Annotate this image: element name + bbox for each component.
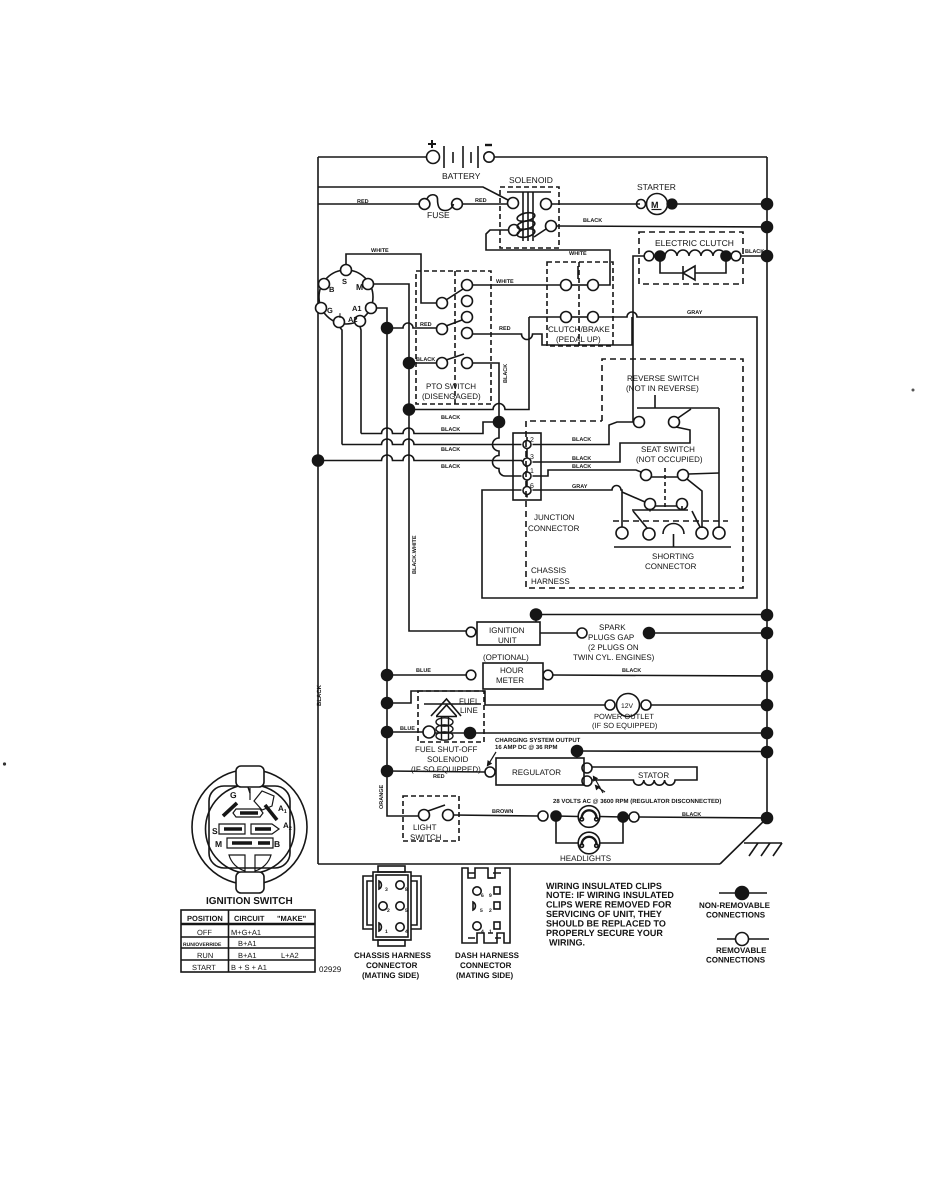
svg-text:ORANGE: ORANGE: [379, 785, 385, 809]
scan speck left: [3, 762, 6, 765]
svg-text:CIRCUIT: CIRCUIT: [234, 914, 265, 923]
node spark right frame: [762, 628, 773, 639]
fuse right terminal: [452, 199, 463, 210]
clutch/brake terminal T1: [561, 280, 572, 291]
svg-text:6: 6: [530, 483, 534, 490]
wire fuel solenoid out: [435, 732, 470, 734]
node M black junction: [404, 358, 415, 369]
PTO terminal L2: [437, 324, 448, 335]
svg-text:OFF: OFF: [197, 928, 212, 937]
reverse switch arm: [678, 409, 691, 418]
svg-text:PROPERLY SECURE YOUR: PROPERLY SECURE YOUR: [546, 928, 663, 938]
svg-text:CHARGING SYSTEM OUTPUT: CHARGING SYSTEM OUTPUT: [495, 737, 581, 744]
svg-text:CONNECTOR: CONNECTOR: [460, 961, 512, 970]
clutch/brake terminal T2: [588, 280, 599, 291]
wire frame to fuse (RED): [318, 203, 420, 205]
pin A2: [355, 316, 366, 327]
PTO switch dashed box: [416, 271, 491, 404]
IGNSWITCH-GROUP: [192, 766, 307, 907]
svg-text:IGNITION SWITCH: IGNITION SWITCH: [206, 896, 293, 907]
fuse element: [427, 195, 454, 211]
pin stems: [526, 437, 528, 498]
svg-text:SOLENOID: SOLENOID: [427, 755, 469, 764]
wire headlight 2 parallel left: [556, 816, 578, 843]
PTO switch arm mid: [446, 320, 462, 326]
svg-text:5: 5: [480, 908, 483, 914]
seat dashed divider: [664, 468, 666, 510]
svg-text:M: M: [651, 200, 659, 210]
ignition switch top tab: [236, 766, 264, 787]
reverse switch bar: [637, 407, 719, 409]
battery plus sign: [428, 140, 436, 148]
svg-text:BLACK: BLACK: [572, 456, 591, 462]
ignition switch bottom tab: [236, 872, 264, 893]
svg-text:CLIPS WERE REMOVED FOR: CLIPS WERE REMOVED FOR: [546, 900, 672, 910]
table column divider: [228, 910, 230, 972]
scan speck right: [912, 389, 915, 392]
node right frame clutch: [762, 251, 773, 262]
clutch/brake terminal B1: [561, 312, 572, 323]
node W1 junction: [404, 404, 415, 415]
node regulator red junction: [382, 766, 393, 777]
seat lower bridge: [656, 505, 677, 507]
clutch coil: [665, 250, 725, 256]
fuse left terminal: [419, 199, 430, 210]
node clutch left: [655, 251, 665, 261]
wire I down: [340, 328, 342, 445]
pin 6: [523, 487, 531, 495]
node PTO black junction: [494, 417, 505, 428]
PTO terminal R3: [462, 312, 473, 323]
wire reverse bar down to shorting: [718, 408, 720, 528]
dash pin O6: [473, 887, 481, 895]
svg-text:16 AMP DC @ 36 RPM: 16 AMP DC @ 36 RPM: [495, 744, 558, 751]
wire pin2 to reverse left: [533, 422, 634, 445]
ground bus wire: [536, 614, 767, 616]
node headlights right frame: [762, 813, 773, 824]
bus stub to ignition unit: [535, 615, 537, 623]
svg-text:4: 4: [405, 929, 408, 935]
wire headlight 2 parallel right: [600, 817, 623, 843]
node regulator right frame: [762, 747, 773, 758]
SHORTING-GROUP: [613, 511, 731, 571]
wire headlight1 to right node: [600, 816, 624, 819]
regulator box: [496, 758, 584, 785]
svg-text:NOTE: IF WIRING INSULATED: NOTE: IF WIRING INSULATED: [546, 890, 674, 900]
solenoid dashed box: [500, 187, 559, 248]
svg-text:S: S: [212, 826, 218, 836]
svg-text:A1: A1: [278, 804, 287, 815]
svg-text:SOLENOID: SOLENOID: [509, 175, 553, 185]
svg-text:12V: 12V: [621, 703, 634, 710]
wire red to regulator: [387, 771, 485, 772]
svg-text:M+G+A1: M+G+A1: [231, 928, 261, 937]
stator loop: [592, 767, 697, 785]
regulator right terminal lower: [582, 776, 592, 786]
REVERSE-GROUP: [533, 374, 720, 462]
node headlight left: [551, 811, 561, 821]
wire A2 down: [360, 327, 361, 434]
PTO terminal L1: [437, 298, 448, 309]
pin M: [363, 279, 374, 290]
node starter to frame: [667, 199, 677, 209]
keyswitch I tick: [248, 787, 250, 793]
svg-text:BLACK: BLACK: [503, 364, 509, 383]
node fuel out junction: [465, 728, 476, 739]
node charging right frame: [762, 728, 773, 739]
wire bottom frame: [318, 863, 720, 865]
wire hour meter to right frame (BLACK): [553, 675, 767, 676]
charging arrow: [488, 752, 497, 766]
svg-text:LINE: LINE: [460, 706, 478, 715]
dash harness connector outline: [462, 868, 510, 943]
svg-text:2: 2: [387, 908, 390, 914]
wire clutch to right frame (BLACK): [741, 255, 767, 257]
clutch/brake dashed divider: [578, 262, 580, 346]
svg-text:POWER OUTLET: POWER OUTLET: [594, 712, 654, 721]
svg-text:REMOVABLE: REMOVABLE: [716, 946, 767, 955]
battery plates: [443, 146, 445, 168]
IGNCONN-GROUP: [316, 248, 467, 771]
svg-text:(2 PLUGS ON: (2 PLUGS ON: [588, 643, 639, 652]
wire M down (BLACK.WHITE main): [374, 284, 467, 631]
pin G: [316, 303, 327, 314]
node bus right frame: [762, 610, 773, 621]
svg-text:3: 3: [385, 887, 388, 893]
dash connector top notch detail: [468, 873, 501, 878]
wire gray out with hop: [482, 312, 757, 598]
svg-text:TWIN CYL. ENGINES): TWIN CYL. ENGINES): [573, 653, 655, 662]
svg-text:02929: 02929: [319, 965, 342, 974]
STARTER-GROUP: [637, 182, 773, 233]
wire to 12V outlet with jog: [387, 691, 605, 705]
fuel solenoid terminal: [423, 726, 435, 738]
shorting bottom bar: [614, 546, 731, 548]
PTO terminal R5: [462, 358, 473, 369]
SEAT-GROUP: [533, 408, 720, 528]
PTO switch arm bottom: [446, 354, 464, 360]
non-removable symbol wire: [719, 892, 767, 894]
wire node to headlight1: [556, 815, 579, 818]
svg-text:CONNECTOR: CONNECTOR: [366, 961, 418, 970]
svg-text:FUSE: FUSE: [427, 210, 450, 220]
svg-text:B+A1: B+A1: [238, 951, 257, 960]
svg-text:HOUR: HOUR: [500, 666, 524, 675]
svg-text:RED: RED: [499, 326, 511, 332]
dash pin 2: [494, 902, 500, 909]
svg-text:SWITCH: SWITCH: [410, 833, 442, 842]
svg-text:(OPTIONAL): (OPTIONAL): [483, 653, 529, 662]
wire blue to fuel solenoid: [387, 731, 423, 733]
wire top frame left of battery: [318, 156, 427, 158]
CONNECTORS-GROUP: [354, 866, 520, 980]
solenoid switch arm: [534, 229, 546, 237]
svg-text:S: S: [342, 277, 347, 286]
table outer box: [181, 910, 315, 972]
dash pin 1: [494, 922, 500, 929]
fuel valve coil: [436, 717, 453, 740]
chassis pin D1: [379, 923, 381, 931]
svg-text:G: G: [327, 306, 333, 315]
svg-text:(DISENGAGED): (DISENGAGED): [422, 392, 481, 401]
solenoid terminal bottom-right: [546, 221, 557, 232]
svg-text:B+A1: B+A1: [238, 939, 257, 948]
wire clutch feed down to reverse switch: [633, 256, 644, 422]
chassis pin O8: [396, 881, 404, 889]
wire solenoid lower contact to right frame (BLACK): [557, 226, 768, 227]
dash pin D5: [473, 902, 475, 910]
wire pin1 to seat upper-left: [533, 470, 642, 476]
svg-text:PTO SWITCH: PTO SWITCH: [426, 382, 476, 391]
svg-text:CLUTCH/BRAKE: CLUTCH/BRAKE: [548, 325, 610, 334]
svg-text:A2: A2: [348, 315, 358, 324]
svg-text:BROWN: BROWN: [492, 809, 513, 815]
battery minus sign: [485, 144, 492, 146]
wire bottom-right chamfer: [720, 818, 767, 864]
svg-text:CONNECTOR: CONNECTOR: [528, 524, 580, 533]
wire solenoid white feed down to clutch/brake: [486, 230, 610, 285]
chassis pin O2: [379, 902, 387, 910]
svg-text:IGNITION: IGNITION: [489, 626, 525, 635]
HOURMETER-GROUP: [382, 653, 773, 689]
seat terminal upper-left: [641, 470, 652, 481]
svg-text:M: M: [215, 839, 222, 849]
svg-text:BLACK: BLACK: [583, 218, 602, 224]
svg-text:6: 6: [481, 893, 484, 899]
svg-text:REVERSE SWITCH: REVERSE SWITCH: [627, 374, 699, 383]
svg-text:STATOR: STATOR: [638, 771, 669, 780]
LIGHTS-GROUP: [379, 776, 773, 863]
svg-text:GRAY: GRAY: [687, 310, 703, 316]
svg-text:3: 3: [530, 454, 534, 461]
svg-text:SHOULD BE REPLACED TO: SHOULD BE REPLACED TO: [546, 919, 666, 929]
node right frame battery junction: [762, 199, 773, 210]
regulator right terminal upper: [582, 763, 592, 773]
node left frame W4: [313, 455, 324, 466]
table row line 2: [181, 936, 315, 938]
table row line 3: [181, 947, 315, 949]
electric clutch dashed box: [639, 232, 743, 284]
svg-text:BLACK: BLACK: [441, 427, 460, 433]
node 12V blue junction: [382, 698, 393, 709]
svg-text:"MAKE": "MAKE": [277, 914, 307, 923]
wire PTO white out: [473, 284, 561, 286]
svg-text:REGULATOR: REGULATOR: [512, 768, 561, 777]
HARNESS-GROUP: [526, 359, 773, 622]
wire headlights to right frame (BLACK): [639, 817, 767, 818]
PTO terminal R2: [462, 296, 473, 307]
headlight 2: [578, 832, 600, 854]
node right frame solenoid black: [762, 222, 773, 233]
svg-text:NON-REMOVABLE: NON-REMOVABLE: [699, 901, 771, 910]
headlight removable connection right: [629, 812, 639, 822]
svg-text:G: G: [230, 790, 237, 800]
seat terminal lower-right: [677, 499, 688, 510]
svg-text:(MATING SIDE): (MATING SIDE): [362, 971, 420, 980]
IGNUNIT-GROUP: [466, 622, 772, 662]
svg-text:(MATING SIDE): (MATING SIDE): [456, 971, 514, 980]
svg-text:RUN: RUN: [197, 951, 213, 960]
clutch/brake tick: [577, 266, 579, 279]
solenoid core lines: [522, 192, 524, 241]
svg-text:BLACK.WHITE: BLACK.WHITE: [412, 535, 418, 574]
diode D1: [683, 266, 695, 280]
seat terminal upper-right: [678, 470, 689, 481]
keyway channels: [219, 788, 279, 871]
FUEL-GROUP: [382, 691, 773, 774]
ignition switch middle ring: [206, 785, 295, 874]
ignition unit box: [477, 622, 540, 645]
svg-text:9: 9: [489, 893, 492, 899]
FRAME-GROUP: [3, 157, 915, 864]
svg-text:(NOT OCCUPIED): (NOT OCCUPIED): [636, 455, 703, 464]
svg-text:M: M: [356, 282, 363, 292]
dash pin O4: [473, 922, 481, 930]
wire seat upper-right down: [687, 479, 702, 528]
svg-text:START: START: [192, 963, 216, 972]
node A1 red junction: [382, 323, 393, 334]
wire gray slant to seat lower-left: [622, 492, 645, 502]
chassis pin O4: [396, 923, 404, 931]
headlight 1: [578, 806, 600, 828]
non-removable node: [736, 887, 749, 900]
svg-text:(PEDAL UP): (PEDAL UP): [556, 335, 601, 344]
hour meter right terminal: [543, 670, 553, 680]
wire W2 black from A2-line: [361, 422, 496, 434]
svg-text:CHASSIS HARNESS: CHASSIS HARNESS: [354, 951, 432, 960]
svg-text:HARNESS: HARNESS: [531, 577, 570, 586]
svg-text:BLACK: BLACK: [572, 437, 591, 443]
stator arrows: [594, 777, 606, 794]
wire left frame vertical: [317, 157, 319, 864]
pin 3: [523, 458, 531, 466]
removable node: [736, 933, 749, 946]
svg-text:L+A2: L+A2: [281, 951, 299, 960]
shorting slant left: [633, 511, 647, 528]
table header divider: [181, 923, 315, 925]
ground: [744, 843, 782, 856]
svg-text:BLACK: BLACK: [316, 684, 323, 706]
svg-text:1: 1: [530, 468, 534, 475]
solenoid terminal bottom-left: [509, 225, 520, 236]
removable symbol wire: [717, 938, 769, 940]
wire right frame vertical: [766, 157, 768, 818]
pin 2: [523, 441, 531, 449]
svg-text:SPARK: SPARK: [599, 623, 626, 632]
node regulator output: [572, 746, 583, 757]
svg-text:5: 5: [405, 908, 408, 914]
wire bottom row left: [529, 316, 561, 318]
svg-text:B: B: [274, 839, 280, 849]
solenoid top bar: [507, 191, 551, 193]
svg-text:DASH HARNESS: DASH HARNESS: [455, 951, 520, 960]
svg-text:BLACK: BLACK: [622, 668, 641, 674]
BATTERY-GROUP: [318, 140, 508, 200]
wire reverse right to junction pin3 staircase: [533, 427, 691, 462]
chassis connector left rail: [363, 876, 373, 929]
fuel line pipe: [424, 703, 481, 705]
node spark junction: [644, 628, 655, 639]
FUSE-GROUP: [318, 195, 507, 220]
svg-text:B: B: [329, 285, 335, 294]
seat terminal lower-left: [645, 499, 656, 510]
svg-text:A1: A1: [352, 304, 362, 313]
node hour meter blue junction: [382, 670, 393, 681]
svg-text:LIGHT: LIGHT: [413, 823, 437, 832]
fuel line dashed box: [418, 691, 484, 742]
chassis pin O5: [396, 902, 404, 910]
svg-text:4: 4: [481, 929, 484, 935]
svg-text:RED: RED: [433, 774, 445, 780]
12V outlet circle: [617, 694, 640, 717]
wire bottom contact bridge: [572, 316, 588, 318]
regulator top stub: [576, 751, 578, 758]
reverse terminal right: [669, 417, 680, 428]
wire regulator output to right frame: [577, 750, 767, 753]
seat upper bridge: [652, 476, 678, 478]
svg-text:BLACK: BLACK: [682, 812, 701, 818]
wire top contact bridge: [572, 284, 588, 286]
wire A1 down: [377, 308, 388, 771]
node hour meter right frame: [762, 671, 773, 682]
clutch/brake dashed box: [547, 262, 613, 346]
wire fuse to solenoid (RED): [463, 203, 507, 205]
svg-text:(NOT IN REVERSE): (NOT IN REVERSE): [626, 384, 699, 393]
svg-text:WHITE: WHITE: [569, 251, 587, 257]
svg-text:WHITE: WHITE: [371, 248, 389, 254]
light switch terminal right: [443, 810, 454, 821]
svg-text:WHITE: WHITE: [496, 279, 514, 285]
wire black W1 from M-line to clutch/brake: [409, 317, 529, 410]
svg-text:POSITION: POSITION: [187, 914, 223, 923]
svg-text:BLACK: BLACK: [572, 464, 591, 470]
CLUTCHBRAKE-GROUP: [404, 262, 758, 598]
svg-text:ELECTRIC CLUTCH: ELECTRIC CLUTCH: [655, 238, 734, 248]
regulator left terminal: [485, 767, 495, 777]
svg-text:RED: RED: [420, 322, 432, 328]
svg-text:(IF SO EQUIPPED): (IF SO EQUIPPED): [592, 721, 658, 730]
svg-text:BLACK: BLACK: [441, 415, 460, 421]
PTO switch arm top: [446, 289, 463, 300]
svg-text:SHORTING: SHORTING: [652, 552, 694, 561]
svg-text:1: 1: [489, 929, 492, 935]
12V right terminal: [641, 700, 651, 710]
clutch/brake terminal B2: [588, 312, 599, 323]
clutch removable connection right: [731, 251, 741, 261]
pin A1: [366, 303, 377, 314]
chassis connector bottom tab: [378, 940, 405, 946]
wire PTO black down to junction pin1: [473, 363, 522, 476]
chassis pin D3: [379, 881, 381, 889]
seat lower bar: [632, 506, 688, 512]
ignition unit left terminal: [466, 627, 476, 637]
LEGEND-GROUP: [546, 881, 771, 965]
PTO terminal R1: [462, 280, 473, 291]
svg-text:SEAT SWITCH: SEAT SWITCH: [641, 445, 695, 454]
starter motor M: [647, 194, 668, 215]
fuel valve chevron: [431, 699, 461, 717]
wire spark to right frame: [649, 632, 767, 634]
clutch removable connection left: [644, 251, 654, 261]
shorting pin 2: [643, 528, 655, 540]
hour meter left terminal: [466, 670, 476, 680]
svg-text:BLUE: BLUE: [400, 726, 415, 732]
PTO inner dashed divider: [454, 271, 456, 404]
pin I: [334, 317, 345, 328]
svg-text:8: 8: [405, 887, 408, 893]
hour meter box: [483, 663, 543, 689]
TABLE-GROUP: [181, 910, 342, 974]
